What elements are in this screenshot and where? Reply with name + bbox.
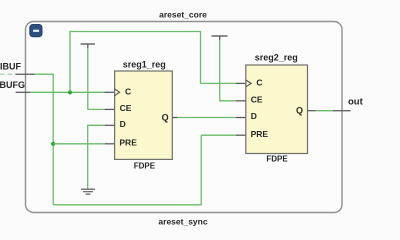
pin stub sreg1 D [105,124,115,126]
svg-text:C: C [125,86,131,96]
wire clk port stub [16,91,31,93]
svg-text:sreg1_reg: sreg1_reg [123,60,166,70]
svg-text:Q: Q [162,112,169,122]
wire rst to sreg1 PRE [53,143,105,145]
svg-text:C: C [256,78,262,88]
wire rst riser to sreg2 PRE [200,135,202,205]
svg-text:out: out [348,97,364,108]
pin stub sreg1 CE [105,108,115,110]
ground [81,189,95,194]
svg-text:CE: CE [120,103,132,113]
wire rst to sreg2 PRE horizontal [201,134,236,136]
svg-text:PRE: PRE [119,137,137,147]
svg-text:areset_sync: areset_sync [158,216,207,226]
wire clk to sreg2 C horizontal [201,82,236,84]
svg-text:IBUF: IBUF [0,61,21,71]
svg-text:FDPE: FDPE [266,154,288,163]
wire rst bottom run [53,204,201,206]
svg-text:CE: CE [251,94,263,104]
pin stub sreg2 C [236,82,246,84]
pin C arrow [115,89,120,96]
pin C arrow [246,80,251,87]
wire rst net horizontal [35,73,54,75]
svg-text:D: D [120,119,126,129]
node clk junction [68,90,72,94]
svg-text:Q: Q [296,106,303,116]
collapse button [30,25,42,37]
wire rst port stub [15,73,34,75]
wire rst dashed off-page [0,73,14,75]
wire out port stub [333,110,351,112]
wire sreg1 Q to sreg2 D [178,117,236,119]
node rst junction [51,142,55,146]
wire clk top horizontal [69,31,201,33]
svg-text:BUFG: BUFG [0,80,25,90]
pin stub sreg1 C [105,91,115,93]
pin stub sreg2 D [236,117,246,119]
wire gnd to sreg1 D [88,125,105,188]
svg-text:D: D [251,111,257,121]
power VCC T2 [212,36,228,40]
pin stub sreg2 CE [236,100,246,102]
pin stub sreg2 Q [308,110,316,112]
hierarchy block areset_sync boundary [26,22,343,213]
power VCC T1 [81,44,95,48]
flip-flop U2 sreg2_reg FDPE [246,53,308,164]
wire clk vertical up [69,31,71,92]
svg-text:PRE: PRE [251,129,269,139]
wire out net [316,110,334,112]
wire vcc2 to sreg2 CE [220,40,236,101]
wire clk vertical down to sreg2 C [200,32,202,84]
flip-flop U1 sreg1_reg FDPE [115,60,173,171]
svg-text:areset_core: areset_core [159,9,207,19]
svg-text:sreg2_reg: sreg2_reg [255,53,298,63]
wire vcc1 to sreg1 CE [88,48,105,109]
svg-text:FDPE: FDPE [134,162,156,171]
pin stub sreg1 Q [172,117,177,119]
pin stub sreg2 PRE [236,134,246,136]
wire clk net horizontal to sreg1 C [31,91,105,93]
wire rst net vertical left [52,74,54,205]
pin stub sreg1 PRE [105,143,115,145]
